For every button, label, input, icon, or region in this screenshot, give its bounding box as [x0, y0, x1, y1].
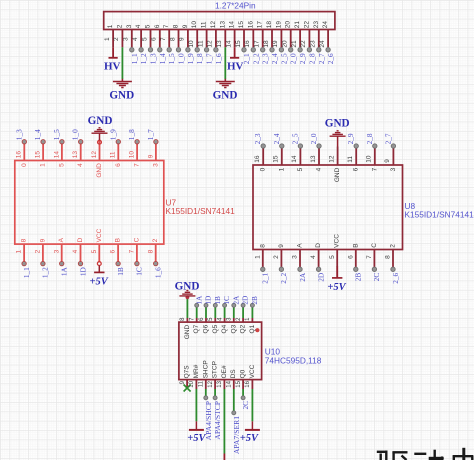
svg-text:1_1: 1_1 [22, 267, 31, 278]
svg-text:1_9: 1_9 [108, 129, 117, 140]
svg-text:OE#: OE# [221, 365, 228, 378]
svg-text:9: 9 [384, 159, 391, 163]
power flag HV (pin 1) [104, 47, 121, 72]
U8 pin 16 (0) top [253, 133, 267, 171]
U8 pin 4 (D) bottom [310, 243, 325, 282]
U7 pin 5 (VCC) bottom [91, 228, 103, 261]
connector pin 3 [123, 24, 139, 64]
svg-text:13: 13 [219, 21, 226, 29]
svg-text:12: 12 [328, 155, 335, 163]
svg-text:0: 0 [260, 167, 267, 171]
wire U10 MR# to +5V [195, 389, 197, 421]
U7 pin 4 (D) bottom [72, 237, 87, 276]
svg-text:2C: 2C [372, 273, 381, 282]
U8 pin 12 (GND) top [328, 147, 341, 183]
connector pin 21 [291, 21, 307, 65]
U8 pin 11 (6) top [346, 133, 360, 171]
svg-text:17: 17 [257, 21, 264, 29]
svg-text:11: 11 [110, 151, 117, 158]
svg-text:Q5: Q5 [212, 324, 219, 333]
IC U10 74HC595D body [179, 322, 262, 380]
wire U10 GND pin to ground [186, 298, 188, 319]
U7 pin 3 (A) bottom [53, 237, 68, 276]
svg-text:10: 10 [188, 40, 195, 48]
svg-text:19: 19 [272, 40, 279, 48]
svg-text:3: 3 [53, 249, 60, 253]
svg-text:APA4/STCP: APA4/STCP [213, 401, 222, 440]
U10 pin 8 (GND) top [180, 298, 191, 340]
U7 pin 12 (GND) top [91, 141, 103, 178]
connector pin 1 [104, 24, 114, 47]
svg-text:22: 22 [303, 21, 310, 29]
svg-text:8: 8 [147, 249, 154, 253]
svg-text:14: 14 [227, 380, 233, 387]
U7 pin 8 (2) bottom [147, 238, 162, 278]
svg-text:24: 24 [322, 21, 329, 29]
svg-text:23: 23 [310, 40, 317, 48]
svg-text:2_8: 2_8 [307, 53, 316, 64]
svg-text:9: 9 [179, 37, 186, 41]
svg-text:12: 12 [208, 380, 214, 387]
U10 pin 16 (VCC) bottom [245, 364, 256, 389]
svg-text:2B: 2B [354, 273, 363, 282]
svg-text:D: D [77, 237, 84, 242]
svg-text:1D: 1D [204, 296, 213, 305]
svg-text:2: 2 [113, 37, 120, 41]
svg-text:0: 0 [21, 163, 28, 167]
svg-text:21: 21 [291, 40, 298, 48]
svg-text:6: 6 [151, 37, 158, 41]
svg-text:Q1: Q1 [249, 324, 256, 333]
svg-text:7: 7 [129, 249, 136, 253]
svg-text:18: 18 [266, 21, 273, 29]
no-connect X on U10 pin 9 [184, 385, 191, 392]
svg-text:16: 16 [16, 151, 23, 159]
net label 2C [241, 401, 250, 410]
svg-text:VCC: VCC [334, 234, 341, 248]
svg-text:4: 4 [310, 255, 317, 259]
svg-text:1_0: 1_0 [71, 129, 80, 140]
svg-text:1_5: 1_5 [52, 129, 61, 140]
connector pin 17 [254, 21, 270, 65]
U10 part name 74HC595D,118 [265, 355, 322, 365]
svg-text:2D: 2D [316, 273, 325, 282]
U8 designator [405, 201, 416, 211]
svg-text:Q7: Q7 [193, 324, 200, 333]
svg-text:1_6: 1_6 [154, 267, 163, 278]
U7 pin 14 (5) top [52, 129, 66, 167]
svg-text:11: 11 [197, 40, 204, 47]
power flag +5V below U8 pin 5 [327, 267, 346, 293]
svg-text:4: 4 [132, 37, 139, 41]
svg-text:A: A [58, 237, 65, 242]
svg-text:1_2: 1_2 [139, 53, 148, 64]
svg-text:8: 8 [385, 255, 392, 259]
connector pin 5 [141, 24, 157, 64]
U10 designator [265, 346, 281, 356]
svg-text:2_6: 2_6 [326, 53, 335, 64]
connector pin 18 [263, 21, 279, 65]
svg-text:20: 20 [285, 21, 292, 29]
U7 pin 1 (8) bottom [16, 238, 31, 278]
svg-text:8: 8 [21, 238, 28, 242]
svg-text:2_2: 2_2 [279, 272, 288, 283]
svg-text:5: 5 [91, 249, 98, 253]
svg-text:2: 2 [35, 249, 42, 253]
U8 pin 3 (A) bottom [292, 243, 307, 282]
svg-text:9: 9 [278, 244, 285, 248]
U10 pin 7 (Q7) top [190, 295, 204, 334]
svg-text:1_5: 1_5 [167, 53, 176, 64]
svg-text:1: 1 [278, 167, 285, 171]
power flag +5V (U10 pin 10) [187, 421, 206, 444]
U7 pin 7 (C) bottom [129, 237, 144, 275]
svg-text:GND: GND [334, 167, 341, 182]
connector pin 16 [244, 21, 260, 65]
U10 pin 6 (Q6) top [199, 296, 213, 334]
ground symbol above U10 pin 8 (inverted) [175, 281, 200, 300]
U8 pin 5 (VCC) bottom [329, 234, 341, 267]
svg-text:4: 4 [316, 167, 323, 171]
svg-text:22: 22 [300, 40, 307, 48]
svg-text:K155ID1/SN74141: K155ID1/SN74141 [405, 209, 474, 219]
svg-text:19: 19 [275, 21, 282, 29]
svg-text:1_8: 1_8 [127, 129, 136, 140]
svg-text:VCC: VCC [96, 228, 103, 242]
svg-text:74HC595D,118: 74HC595D,118 [265, 355, 322, 365]
svg-text:3: 3 [126, 24, 133, 28]
svg-text:13: 13 [217, 380, 223, 387]
power flag HV (pin 14) [227, 47, 244, 72]
svg-text:1_1: 1_1 [130, 53, 139, 64]
svg-text:12: 12 [91, 151, 98, 159]
svg-text:GND: GND [96, 163, 103, 178]
svg-text:1C: 1C [222, 296, 231, 305]
svg-text:7: 7 [371, 167, 378, 171]
svg-text:8: 8 [259, 244, 266, 248]
svg-text:11: 11 [199, 380, 205, 387]
svg-text:1_3: 1_3 [14, 129, 23, 140]
svg-text:24: 24 [319, 40, 326, 48]
svg-text:GND: GND [88, 115, 113, 127]
connector pin 2 [113, 24, 123, 47]
svg-text:A: A [297, 243, 304, 248]
svg-text:DS: DS [230, 369, 237, 379]
svg-text:17: 17 [254, 40, 261, 48]
svg-text:2_4: 2_4 [272, 133, 281, 144]
svg-text:SHCP: SHCP [202, 360, 209, 378]
connector pin 4 [132, 24, 148, 64]
svg-text:C: C [371, 243, 378, 248]
svg-text:Q2: Q2 [240, 324, 247, 333]
connector pin 13 [216, 21, 226, 48]
svg-text:16: 16 [245, 380, 251, 387]
net label APA4/STCP [213, 401, 222, 440]
U10 pin 2 (Q2) top [236, 296, 250, 334]
U7 pin 2 (9) bottom [35, 238, 50, 278]
svg-text:10: 10 [189, 380, 195, 387]
svg-text:Q6: Q6 [203, 324, 210, 333]
svg-text:6: 6 [353, 167, 360, 171]
wire U10 Q3 [233, 307, 235, 318]
svg-text:B: B [352, 243, 359, 247]
svg-text:2_3: 2_3 [261, 53, 270, 64]
U10 pin 13 (OE#) bottom [217, 365, 228, 389]
svg-text:10: 10 [191, 21, 198, 29]
svg-text:1B: 1B [213, 296, 222, 305]
svg-text:2_5: 2_5 [290, 133, 299, 144]
U7 designator [166, 198, 177, 208]
wire U10 VCC to +5V [251, 389, 253, 421]
svg-text:6: 6 [115, 163, 122, 167]
U8 pin 6 (B) bottom [347, 243, 362, 281]
svg-text:1D: 1D [78, 267, 87, 276]
svg-text:21: 21 [294, 21, 301, 29]
U10 pin 11 (SHCP) bottom [199, 360, 210, 389]
connector pin 8 [169, 24, 185, 64]
svg-text:2B: 2B [250, 296, 259, 305]
svg-text:9: 9 [182, 24, 189, 28]
svg-text:2_2: 2_2 [251, 53, 260, 64]
svg-text:5: 5 [297, 167, 304, 171]
svg-text:Q4: Q4 [221, 324, 228, 333]
ground symbol above U7 pin 12 [88, 115, 113, 144]
svg-text:1_3: 1_3 [149, 53, 158, 64]
ground symbol (pin 13) [213, 79, 238, 102]
svg-text:2A: 2A [298, 272, 307, 282]
svg-text:GND: GND [325, 118, 350, 130]
svg-text:2_8: 2_8 [365, 133, 374, 144]
svg-text:11: 11 [201, 21, 208, 28]
svg-text:13: 13 [216, 40, 223, 48]
svg-text:9: 9 [147, 154, 154, 158]
svg-text:MR#: MR# [193, 364, 200, 378]
svg-text:Q3: Q3 [230, 324, 237, 333]
svg-text:13: 13 [310, 155, 317, 163]
svg-text:14: 14 [229, 21, 236, 29]
wire U10 DS [232, 389, 236, 415]
svg-text:2: 2 [390, 244, 397, 248]
U8 pin 9 (3) top [383, 133, 397, 171]
svg-text:APA4/SHCP: APA4/SHCP [204, 401, 213, 440]
wire U10 Q2 [242, 307, 244, 318]
connector pin 19 [272, 21, 288, 65]
svg-text:7: 7 [134, 163, 141, 167]
svg-text:2C: 2C [241, 401, 250, 410]
connector 1.27*24Pin body [104, 12, 335, 30]
svg-text:7: 7 [160, 37, 167, 41]
svg-text:2_5: 2_5 [279, 53, 288, 64]
svg-text:1C: 1C [135, 267, 144, 276]
svg-text:5: 5 [329, 255, 336, 259]
svg-text:5: 5 [141, 37, 148, 41]
svg-text:2_6: 2_6 [391, 272, 400, 283]
svg-text:VCC: VCC [249, 364, 256, 378]
wire U10 STCP [213, 389, 217, 400]
wire U10 Q6 [205, 307, 207, 318]
U7 pin 11 (6) top [108, 129, 122, 167]
svg-text:1_4: 1_4 [158, 53, 167, 64]
U10 pin 15 (Q0) bottom [236, 369, 247, 389]
svg-text:6: 6 [154, 24, 161, 28]
svg-text:2: 2 [152, 238, 159, 242]
U10 pin 14 (DS) bottom [227, 369, 238, 389]
svg-text:2A: 2A [231, 295, 240, 305]
svg-text:11: 11 [347, 156, 354, 163]
connector pin 7 [160, 24, 176, 64]
svg-text:2: 2 [116, 24, 123, 28]
svg-text:D: D [315, 243, 322, 248]
svg-text:13: 13 [72, 151, 79, 159]
svg-text:8: 8 [173, 24, 180, 28]
svg-text:15: 15 [238, 21, 245, 29]
power flag +5V below U7 pin 5 [89, 262, 108, 288]
svg-text:15: 15 [236, 380, 242, 387]
svg-text:1_7: 1_7 [146, 129, 155, 140]
IC U7 K155ID1/SN74141 body [15, 161, 164, 245]
svg-text:1_6: 1_6 [214, 53, 223, 64]
svg-text:2D: 2D [241, 296, 250, 305]
svg-text:HV: HV [227, 60, 244, 72]
connector pin 11 [197, 21, 213, 64]
connector pin 23 [310, 21, 326, 65]
svg-text:1_4: 1_4 [33, 129, 42, 140]
svg-text:20: 20 [282, 40, 289, 48]
IC U8 K155ID1/SN74141 body [253, 165, 403, 250]
svg-text:18: 18 [263, 40, 270, 48]
svg-text:2_0: 2_0 [289, 53, 298, 64]
U10 pin 1 (Q1) top [245, 296, 259, 334]
svg-text:23: 23 [313, 21, 320, 29]
U8 pin 15 (1) top [272, 133, 286, 171]
U8 pin 7 (C) bottom [366, 243, 381, 282]
svg-text:+5V: +5V [327, 282, 346, 293]
svg-text:K155ID1/SN74141: K155ID1/SN74141 [166, 206, 236, 216]
ground symbol (pin 2) [109, 79, 134, 102]
connector pin 15 [235, 21, 251, 65]
svg-text:1: 1 [16, 249, 23, 253]
svg-text:+5V: +5V [89, 276, 108, 287]
connector pin 24 [319, 21, 335, 65]
svg-text:10: 10 [366, 155, 373, 163]
svg-text:1B: 1B [116, 267, 125, 276]
svg-text:14: 14 [53, 151, 60, 159]
U10 pin 5 (Q5) top [208, 296, 222, 334]
svg-text:15: 15 [273, 155, 280, 163]
wire U10 Q5 [214, 307, 216, 318]
svg-text:1_9: 1_9 [186, 53, 195, 64]
svg-text:5: 5 [145, 24, 152, 28]
U8 pin 1 (8) bottom [254, 244, 269, 284]
U8 pin 8 (2) bottom [385, 244, 400, 284]
svg-text:1: 1 [254, 255, 261, 259]
U7 pin 16 (0) top [14, 129, 28, 167]
svg-text:Q0: Q0 [240, 369, 247, 378]
wire pin13 to GND [224, 47, 226, 79]
U8 pin 10 (7) top [365, 133, 379, 171]
svg-text:8: 8 [169, 37, 176, 41]
svg-text:2_4: 2_4 [270, 53, 279, 64]
svg-text:16: 16 [247, 21, 254, 29]
svg-text:3: 3 [152, 163, 159, 167]
svg-text:2_3: 2_3 [253, 133, 262, 144]
U7 pin 9 (3) top [146, 129, 160, 167]
U7 part name K155ID1/SN74141 [166, 206, 236, 216]
svg-text:1A: 1A [60, 266, 69, 276]
U8 part name K155ID1/SN74141 [405, 209, 474, 219]
svg-text:1: 1 [40, 163, 47, 167]
svg-text:2_9: 2_9 [346, 133, 355, 144]
ground symbol above U8 pin 12 [325, 118, 350, 147]
svg-text:12: 12 [207, 40, 214, 48]
U7 pin 13 (4) top [71, 129, 85, 167]
U10 pin 4 (Q4) top [217, 296, 231, 334]
svg-text:16: 16 [254, 155, 261, 163]
net label APA4/SHCP [204, 401, 213, 440]
U7 pin 10 (7) top [127, 129, 141, 167]
svg-text:HV: HV [104, 60, 121, 72]
svg-text:GND: GND [184, 325, 191, 340]
svg-text:1_2: 1_2 [41, 267, 50, 278]
connector pin 12 [207, 21, 223, 65]
U7 pin 15 (1) top [33, 129, 47, 167]
svg-text:STCP: STCP [212, 361, 219, 378]
connector pin 14 [225, 21, 235, 48]
U8 pin 14 (5) top [290, 133, 304, 171]
svg-text:14: 14 [225, 40, 232, 48]
svg-text:2_7: 2_7 [317, 53, 326, 64]
U10 pin 12 (STCP) bottom [208, 361, 219, 389]
svg-text:7: 7 [163, 24, 170, 28]
U7 pin 6 (B) bottom [110, 238, 125, 276]
wire U10 Q0 [241, 389, 245, 400]
wire U10 SHCP [204, 389, 208, 400]
svg-text:C: C [133, 237, 140, 242]
power flag +5V (U10 pin 16) [240, 421, 260, 444]
svg-text:10: 10 [129, 151, 136, 159]
svg-text:16: 16 [244, 40, 251, 48]
wire pin2 to GND [121, 47, 123, 79]
svg-text:4: 4 [72, 249, 79, 253]
U10 pin 3 (Q3) top [227, 295, 241, 334]
svg-text:5: 5 [58, 163, 65, 167]
svg-text:1_0: 1_0 [177, 53, 186, 64]
svg-text:2_1: 2_1 [261, 272, 270, 283]
svg-text:3: 3 [123, 37, 130, 41]
svg-text:1A: 1A [194, 295, 203, 305]
connector pin 20 [282, 21, 298, 65]
svg-text:7: 7 [366, 255, 373, 259]
svg-text:1: 1 [104, 37, 111, 41]
svg-text:Q7S: Q7S [184, 365, 191, 379]
svg-text:GND: GND [213, 90, 238, 102]
svg-text:1_8: 1_8 [195, 53, 204, 64]
svg-text:15: 15 [235, 40, 242, 48]
svg-text:B: B [115, 238, 122, 242]
connector value label 1.27*24Pin [215, 1, 256, 11]
wire U10 OE# long [223, 389, 225, 460]
net label APA7/SER1 [232, 416, 241, 454]
svg-text:GND: GND [109, 90, 134, 102]
svg-text:4: 4 [135, 24, 142, 28]
svg-text:6: 6 [347, 255, 354, 259]
svg-text:2_0: 2_0 [309, 133, 318, 144]
wire U10 Q7 [196, 307, 198, 318]
connector pin 10 [188, 21, 204, 65]
decorative title text (cut off): drawn strokes [377, 448, 473, 460]
svg-text:2: 2 [273, 255, 280, 259]
wire U10 Q1 [251, 307, 253, 318]
